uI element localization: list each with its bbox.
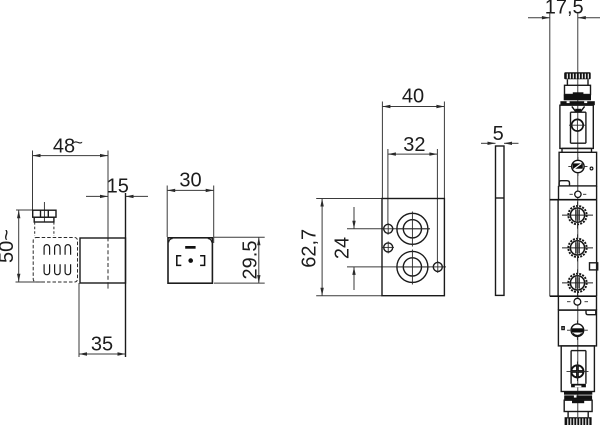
svg-text:62,7: 62,7 <box>299 229 321 268</box>
svg-text:30: 30 <box>179 170 201 192</box>
svg-text:5: 5 <box>493 123 504 145</box>
svg-text:24: 24 <box>332 237 354 259</box>
svg-text:~: ~ <box>73 133 83 152</box>
svg-text:40: 40 <box>402 86 424 108</box>
svg-text:50~: 50~ <box>0 229 18 263</box>
svg-text:29.5: 29.5 <box>240 241 262 280</box>
svg-text:48: 48 <box>53 136 75 158</box>
svg-text:35: 35 <box>91 334 113 356</box>
svg-text:32: 32 <box>403 134 425 156</box>
